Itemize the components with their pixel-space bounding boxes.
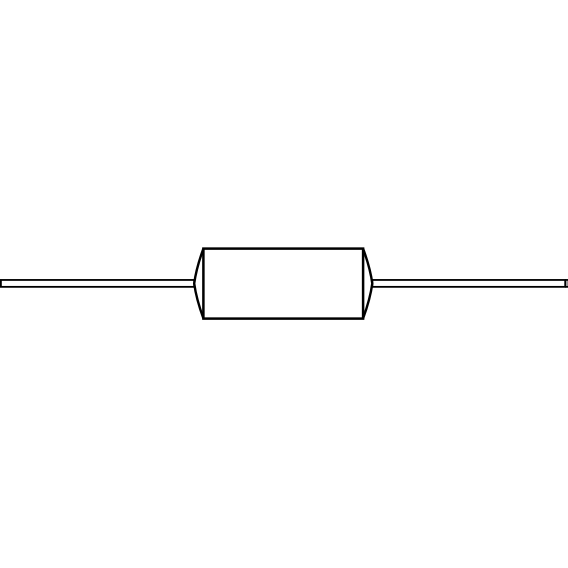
component body (203, 249, 363, 319)
component end cap (right taper) (363, 249, 372, 319)
wire (right lead) (372, 280, 565, 287)
wire (right lead stub at image edge) (566, 281, 568, 286)
component end cap (left taper) (194, 249, 203, 319)
wire (left lead) (1, 280, 194, 287)
